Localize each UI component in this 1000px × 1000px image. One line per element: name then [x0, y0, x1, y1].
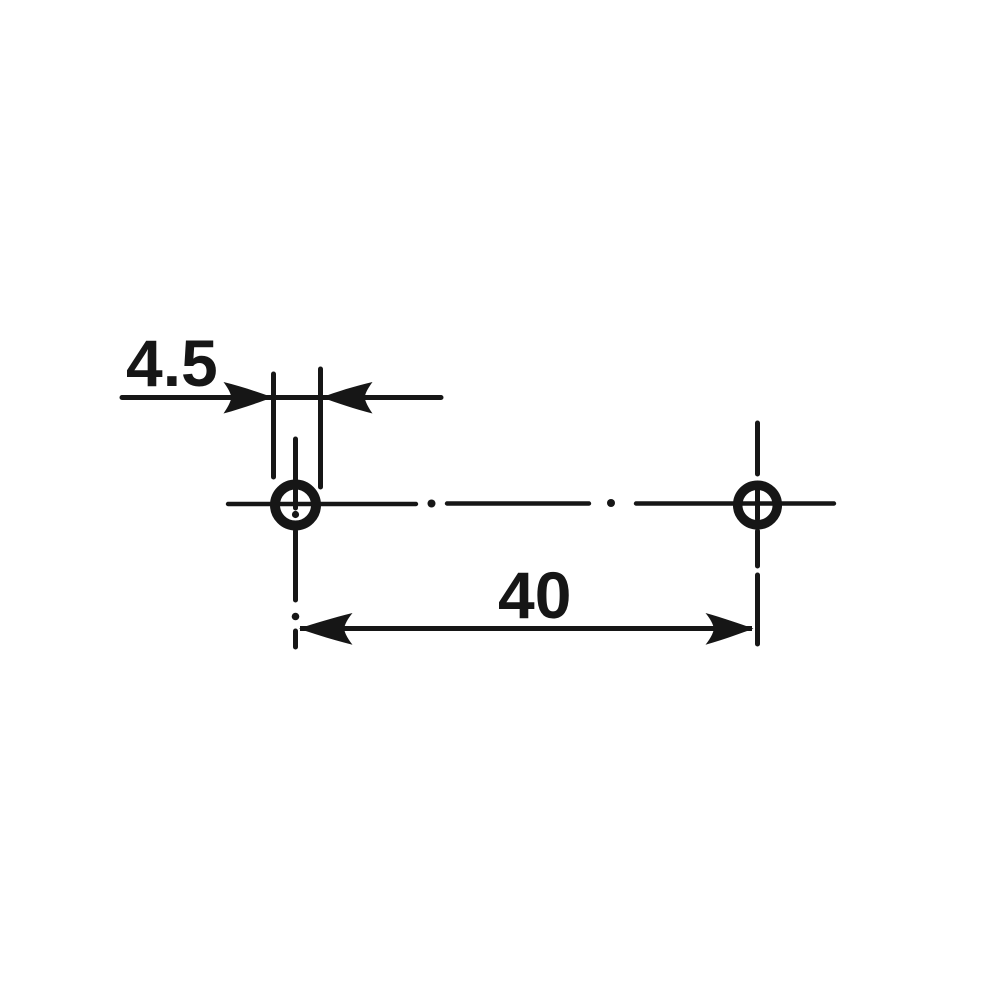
right hole vertical centerline upper segment [755, 423, 760, 474]
arrowhead right (pointing right) of 40 dimension [706, 613, 754, 645]
extension line right (hole edge) [318, 369, 323, 487]
arrowhead right (pointing left) of 4.5 dimension [322, 382, 373, 414]
right mounting hole circle [738, 485, 778, 525]
horizontal centerline dash 2 [447, 501, 589, 505]
left hole vertical centerline tick below dimension line [293, 631, 298, 647]
svg-text:4.5: 4.5 [126, 326, 218, 400]
horizontal centerline dash 3 (through right hole) [636, 501, 834, 505]
right hole vertical crosshair inside circle [755, 490, 760, 519]
dimension line 4.5 [122, 395, 441, 400]
extension line left (hole edge) [271, 374, 276, 477]
dimension line 40 [300, 626, 752, 631]
left hole center dot [292, 511, 299, 518]
arrowhead left (pointing left) of 40 dimension [299, 613, 353, 645]
horizontal centerline dot 1 [428, 500, 436, 508]
left hole vertical centerline lower segment [293, 531, 298, 600]
right hole vertical centerline lower segment a [755, 531, 760, 566]
svg-text:40: 40 [498, 558, 571, 632]
horizontal centerline dash 1 (through left hole) [228, 502, 416, 506]
horizontal centerline dot 2 [607, 499, 615, 507]
left mounting hole circle [275, 485, 316, 526]
centerline dot below left hole [292, 613, 300, 621]
right hole vertical centerline lower segment b (extension through dim line) [755, 575, 760, 644]
arrowhead left (pointing right) of 4.5 dimension [224, 382, 273, 414]
left hole vertical centerline upper segment [293, 439, 298, 508]
